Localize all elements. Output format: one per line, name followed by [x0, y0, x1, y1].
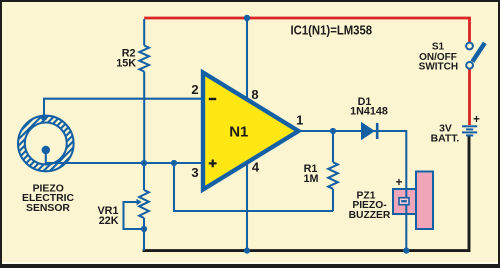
svg-text:+: + [396, 177, 403, 189]
piezo buzzer minus bar [401, 200, 407, 202]
switch S1 top contact circle [466, 43, 473, 50]
junction: output node / R1 top [330, 128, 336, 134]
piezo buzzer PZ1 inner minus box [399, 198, 409, 205]
svg-text:N1: N1 [229, 124, 248, 141]
wire: R2 top lead from V+ rail [143, 19, 145, 46]
svg-text:3: 3 [191, 165, 198, 180]
svg-text:4: 4 [252, 160, 260, 175]
op-amp non-inverting input plus sign [209, 160, 217, 168]
svg-text:+: + [473, 114, 480, 126]
wire: feedback pin-3 node down and right to R1 bottom [174, 163, 333, 211]
svg-text:22K: 22K [99, 215, 119, 227]
junction: V+ rail / pin 8 [244, 15, 250, 21]
op-amp N1 (LM358) triangle [203, 73, 299, 190]
wire through buzzer block [405, 189, 407, 214]
switch S1 lever [472, 43, 484, 62]
svg-text:1M: 1M [304, 173, 319, 185]
junction: pin 4 / ground rail [244, 248, 250, 254]
op-amp inverting input minus sign [209, 98, 216, 100]
wire: pin-3 node to VR1 top [143, 163, 145, 190]
svg-text:IC1(N1)=LM358: IC1(N1)=LM358 [291, 23, 373, 38]
junction: VR1 bottom / wiper [141, 226, 147, 232]
junction: sensor top [41, 115, 47, 121]
svg-text:BUZZER: BUZZER [349, 210, 391, 221]
piezo sensor outer circle [18, 116, 74, 172]
frame inner white edge [2, 262, 498, 264]
resistor R1 1M [328, 162, 338, 189]
potentiometer VR1 22K [139, 190, 149, 218]
wire: R1 bottom lead [332, 189, 334, 211]
wire: R2 bottom to pin-3 node [143, 72, 145, 164]
wire: op-amp pin 4 to ground rail [246, 162, 248, 251]
diode D1 cathode bar [376, 123, 379, 139]
VR1 wiper arrowhead [137, 199, 142, 205]
battery plate long top [462, 125, 477, 127]
battery plate short [466, 128, 473, 130]
svg-text:BATT.: BATT. [431, 133, 460, 144]
wire: VR1 bottom to ground rail [143, 218, 145, 251]
wire: sensor center to op-amp pin 3 [46, 150, 204, 163]
V+ rail (red) from R2 top to switch [144, 18, 469, 43]
resistor R2 15K [139, 46, 149, 72]
wire: op-amp pin 8 to V+ rail [246, 19, 248, 100]
switch S1 bottom contact circle [466, 62, 473, 69]
wire: op-amp output pin 1 to diode and buzzer [297, 131, 406, 251]
junction: pin-3 node / feedback [171, 160, 177, 166]
piezo buzzer PZ1 tall block [416, 172, 433, 230]
junction: buzzer / ground rail [403, 248, 409, 254]
battery plate long [462, 131, 477, 133]
battery plate short bottom [466, 134, 473, 136]
wire: R1 top lead from output node [332, 131, 334, 162]
junction: pin-3 node / R2-VR1 [141, 160, 147, 166]
svg-text:15K: 15K [116, 58, 136, 70]
diode D1 1N4148 body [361, 122, 375, 140]
svg-text:8: 8 [251, 87, 258, 102]
wire: switch to battery + (red) [468, 68, 471, 125]
svg-text:SWITCH: SWITCH [419, 62, 458, 73]
svg-text:SENSOR: SENSOR [26, 203, 70, 214]
VR1 wiper arm loop [124, 202, 145, 229]
svg-text:1: 1 [296, 112, 303, 127]
piezo sensor inner circle [25, 123, 67, 165]
wire: sensor top to op-amp pin 2 [44, 99, 204, 118]
piezo buzzer PZ1 small block [393, 189, 416, 214]
svg-text:2: 2 [191, 82, 198, 97]
piezo sensor center terminal dot [42, 146, 50, 154]
svg-text:1N4148: 1N4148 [350, 105, 388, 117]
wire: battery - to ground rail corner (black) [143, 136, 469, 251]
piezo electric sensor: hatched ring [16, 114, 76, 174]
